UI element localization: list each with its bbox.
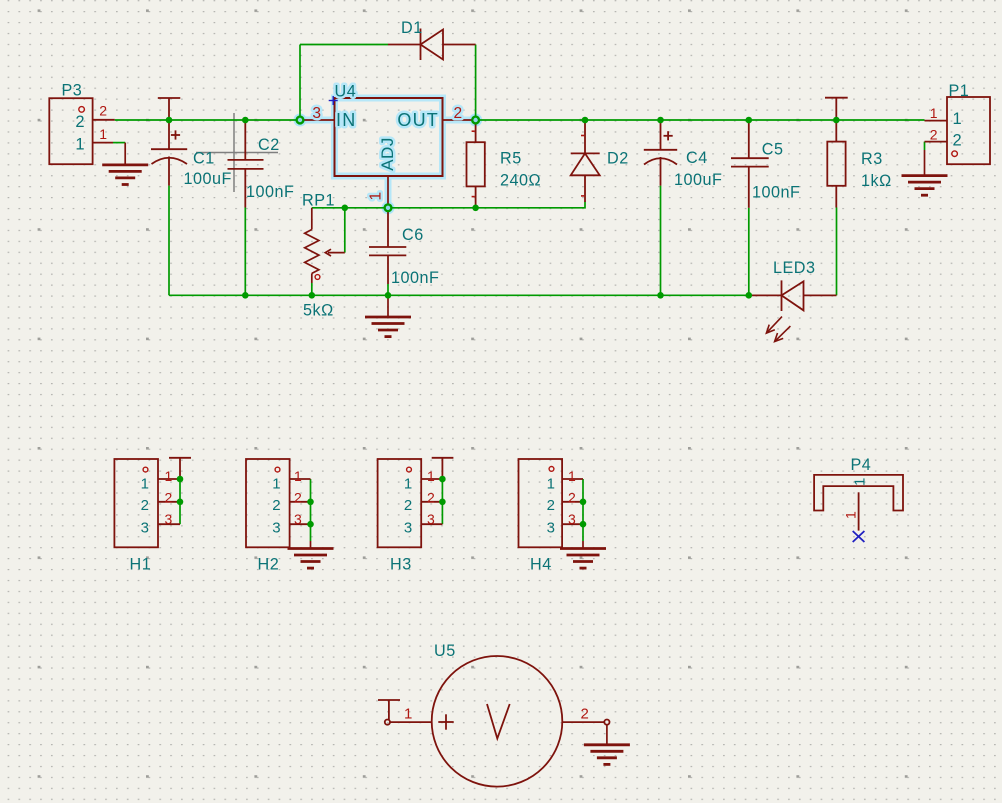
capacitor C2 [228, 120, 264, 208]
junction: H2 pin2 [307, 499, 314, 506]
H3 pin names [404, 476, 412, 537]
svg-text:1: 1 [568, 468, 576, 484]
junction: H3 pin2 [439, 499, 446, 506]
svg-text:3: 3 [312, 105, 321, 122]
connector H1 [114, 459, 180, 547]
ground symbol at H4 [560, 549, 606, 569]
svg-text:H4: H4 [530, 556, 552, 574]
junction: bottom rail at C2 [242, 292, 249, 299]
svg-text:3: 3 [404, 520, 412, 537]
U4 anchor cross [329, 96, 338, 105]
D2 pin nub marks [581, 136, 584, 196]
wire: D1 bypass loop top [300, 44, 388, 46]
wire: H2 pin bus to ground [310, 479, 312, 541]
junction: output rail at D2 [582, 117, 589, 124]
junction: bottom rail at C6 [385, 292, 392, 299]
junction: ADJ net at R5 [472, 205, 479, 212]
svg-text:U5: U5 [434, 642, 456, 660]
svg-text:3: 3 [272, 520, 280, 537]
svg-text:3: 3 [141, 520, 149, 537]
diode D1 [388, 29, 476, 61]
svg-text:2: 2 [99, 103, 107, 119]
svg-text:ADJ: ADJ [378, 137, 397, 171]
svg-text:3: 3 [165, 511, 173, 527]
power bar symbol above C1 [158, 98, 181, 120]
ground symbol at P3 [102, 165, 148, 185]
svg-text:U4: U4 [335, 83, 357, 101]
svg-text:1: 1 [843, 511, 859, 519]
R5 pin nub marks [472, 131, 475, 196]
junction: input rail at C1 [166, 117, 173, 124]
junction: H4 pin3 [580, 521, 587, 528]
svg-text:C2: C2 [258, 136, 280, 154]
svg-text:1: 1 [404, 476, 412, 493]
junction: H2 pin3 [307, 521, 314, 528]
svg-text:2: 2 [930, 126, 938, 142]
svg-text:R5: R5 [500, 150, 522, 168]
svg-text:LED3: LED3 [773, 259, 816, 277]
U4 selection halo [294, 98, 483, 214]
svg-text:1: 1 [368, 191, 385, 200]
svg-text:1: 1 [165, 468, 173, 484]
junction: H3 pin1 [439, 476, 446, 483]
wire: P1 pin2 to ground [924, 142, 926, 150]
connector P4 [814, 475, 903, 531]
svg-text:C5: C5 [762, 141, 784, 159]
svg-text:P1: P1 [949, 82, 970, 100]
connector P1 [925, 97, 991, 164]
wire: D1 bypass loop right vertical [475, 45, 477, 121]
svg-text:100nF: 100nF [246, 183, 294, 201]
junction: output rail at C4 [657, 117, 664, 124]
wire: C5 lower lead to bottom rail [748, 208, 750, 295]
junction: H1 pin1 [177, 476, 184, 483]
svg-text:3: 3 [547, 520, 555, 537]
wire: LED3 cathode up to R3 [836, 208, 838, 296]
svg-text:RP1: RP1 [302, 192, 335, 210]
wire: C1 lower lead to bottom rail [168, 186, 170, 296]
connector P3 [49, 98, 114, 164]
power bar symbol above H1 [169, 458, 191, 479]
wire: C2 lower lead to bottom rail [244, 208, 246, 296]
svg-text:5kΩ: 5kΩ [303, 302, 334, 320]
wire: bottom ground-return rail [169, 294, 749, 296]
svg-text:C1: C1 [193, 150, 215, 168]
svg-text:D2: D2 [607, 150, 629, 168]
connector H3 [378, 459, 443, 547]
wire: RP1 lower lead to bottom rail [311, 283, 313, 295]
svg-text:1: 1 [852, 478, 869, 486]
power bar symbol at U5 pin1 [378, 700, 400, 720]
svg-text:2: 2 [75, 113, 85, 131]
resistor R3 [827, 120, 845, 208]
svg-text:D1: D1 [401, 19, 423, 37]
svg-text:H1: H1 [130, 556, 152, 574]
wire U5 pin2 ground stub [606, 725, 608, 745]
svg-text:2: 2 [427, 490, 435, 506]
H1 pin names [141, 476, 149, 537]
svg-text:2: 2 [141, 497, 149, 514]
svg-text:1: 1 [75, 136, 85, 154]
junction: H4 pin2 [580, 499, 587, 506]
svg-text:2: 2 [454, 105, 463, 122]
svg-text:2: 2 [294, 490, 302, 506]
svg-text:2: 2 [581, 706, 590, 723]
junction: bottom rail at LED3 [746, 292, 753, 299]
svg-text:1: 1 [99, 126, 107, 142]
svg-text:OUT: OUT [397, 110, 439, 130]
svg-text:100uF: 100uF [674, 171, 722, 189]
ground symbol at H2 [288, 549, 334, 569]
cursor crosshair [196, 113, 278, 192]
svg-text:1: 1 [930, 105, 938, 121]
H3 pin numbers [427, 468, 435, 527]
ground symbol below C6 [365, 317, 411, 337]
svg-text:C6: C6 [402, 226, 424, 244]
svg-text:3: 3 [568, 511, 576, 527]
capacitor C4 polarized [644, 120, 677, 186]
wire P3 pin1 drop to ground [124, 143, 126, 165]
junction: bottom rail at C4 [657, 292, 664, 299]
capacitor C6 [369, 208, 406, 284]
H4 pin numbers [568, 468, 576, 527]
capacitor C5 [731, 120, 769, 208]
svg-text:P4: P4 [851, 456, 872, 474]
junction: U4 pin2 highlighted [472, 117, 479, 124]
connector H4 [519, 459, 584, 547]
junction: U4 pin1 highlighted [385, 204, 392, 211]
svg-text:2: 2 [165, 490, 173, 506]
svg-text:R3: R3 [861, 150, 883, 168]
svg-text:2: 2 [953, 131, 963, 149]
svg-text:C4: C4 [686, 149, 708, 167]
junction: output rail at R3 [833, 117, 840, 124]
ground symbol at P1 [902, 176, 948, 196]
junction: bottom rail at RP1 [309, 292, 316, 299]
svg-text:2: 2 [272, 497, 280, 514]
svg-text:H2: H2 [258, 556, 280, 574]
svg-text:1kΩ: 1kΩ [861, 172, 892, 190]
svg-text:240Ω: 240Ω [500, 172, 541, 190]
ground symbol at U5 [584, 745, 630, 765]
svg-text:3: 3 [294, 511, 302, 527]
junction: input rail at C2 [242, 117, 249, 124]
H1 pin numbers [165, 468, 173, 527]
junction: output rail at C5 [746, 117, 753, 124]
voltmeter U5 [385, 656, 610, 787]
svg-text:1: 1 [953, 110, 963, 128]
junction: H1 pin2 [177, 499, 184, 506]
H2 pin names [272, 476, 280, 537]
wire H4 ground stub [582, 541, 584, 549]
wire: P3 pin1 to ground [113, 142, 125, 144]
svg-text:1: 1 [404, 706, 413, 723]
svg-text:2: 2 [547, 497, 555, 514]
wire: RP1 wiper to ADJ net [344, 208, 346, 253]
wire: ADJ net horizontal rail [312, 202, 585, 208]
P4 no-connect X [853, 531, 865, 542]
svg-text:1: 1 [427, 468, 435, 484]
wire H2 ground stub [310, 541, 312, 549]
H2 pin numbers [294, 468, 302, 527]
svg-text:1: 1 [141, 476, 149, 493]
svg-text:1: 1 [547, 476, 555, 493]
svg-text:2: 2 [404, 497, 412, 514]
LED3 emission arrows [766, 317, 790, 342]
svg-text:100uF: 100uF [184, 170, 232, 188]
H4 pin names [547, 476, 555, 537]
wire: input rail from P3 pin2 to U4 IN [115, 119, 300, 121]
resistor R5 [467, 120, 485, 208]
wire: C4 lower lead to bottom rail [660, 186, 662, 296]
wire C6 ground stub [387, 295, 389, 317]
potentiometer RP1 [305, 208, 345, 283]
power bar symbol above H3 [432, 458, 454, 479]
junction: U4 pin3 highlighted [297, 117, 304, 124]
svg-text:IN: IN [336, 110, 356, 130]
svg-text:H3: H3 [390, 556, 412, 574]
svg-text:1: 1 [294, 468, 302, 484]
capacitor C1 polarized [151, 120, 187, 186]
wire: H1 pin bus [179, 479, 181, 524]
svg-text:3: 3 [427, 511, 435, 527]
svg-text:100nF: 100nF [391, 269, 439, 287]
wire P1 pin2 drop to ground [924, 150, 926, 175]
power bar symbol above R3 [825, 98, 848, 120]
svg-text:2: 2 [568, 490, 576, 506]
svg-text:1: 1 [272, 476, 280, 493]
junction: ADJ net at RP1 wiper [342, 205, 349, 212]
regulator U4 [300, 98, 476, 208]
wire: output rail from U4 OUT to P1 pin1 [476, 119, 925, 121]
wire: H4 pin bus to ground [582, 479, 584, 541]
wire: D1 bypass loop left vertical [299, 45, 301, 121]
svg-text:P3: P3 [62, 82, 83, 100]
LED3 [749, 280, 837, 311]
diode D2 [571, 120, 600, 202]
wire: C6 lower lead to bottom rail [387, 284, 389, 295]
svg-text:100nF: 100nF [752, 184, 800, 202]
wire: H3 pin bus [441, 479, 443, 524]
connector H2 [246, 459, 311, 547]
